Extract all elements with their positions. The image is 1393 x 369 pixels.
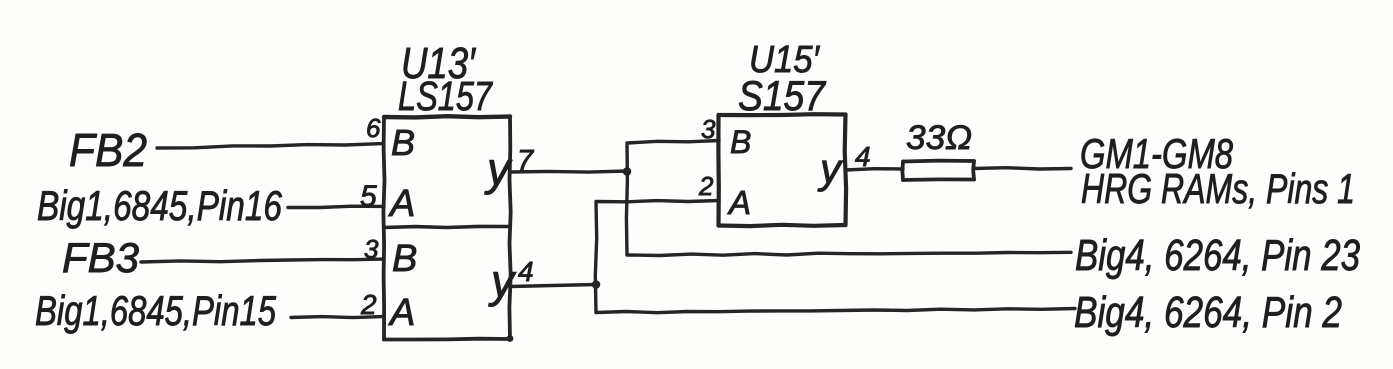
svg-text:y: y — [484, 143, 513, 195]
svg-text:FB2: FB2 — [69, 124, 147, 176]
svg-text:A: A — [727, 184, 751, 221]
svg-text:5: 5 — [360, 180, 377, 213]
svg-text:4: 4 — [855, 141, 871, 172]
svg-text:A: A — [388, 292, 415, 334]
svg-text:S157: S157 — [738, 72, 826, 119]
svg-text:LS157: LS157 — [398, 73, 494, 119]
svg-text:6: 6 — [366, 113, 381, 143]
svg-text:3: 3 — [701, 114, 716, 144]
svg-text:7: 7 — [517, 145, 535, 177]
svg-text:4: 4 — [518, 256, 534, 287]
svg-text:y: y — [488, 255, 517, 307]
svg-text:3: 3 — [364, 234, 379, 264]
svg-text:B: B — [730, 124, 751, 160]
svg-text:y: y — [817, 145, 844, 192]
svg-text:A: A — [388, 183, 415, 225]
svg-text:HRG RAMs, Pins 1: HRG RAMs, Pins 1 — [1081, 165, 1355, 212]
svg-text:Big1,6845,Pin15: Big1,6845,Pin15 — [35, 287, 276, 334]
svg-text:Big4, 6264, Pin 2: Big4, 6264, Pin 2 — [1074, 288, 1342, 337]
svg-text:Big4, 6264, Pin 23: Big4, 6264, Pin 23 — [1075, 231, 1360, 280]
svg-text:B: B — [391, 122, 415, 163]
svg-text:FB3: FB3 — [62, 234, 139, 281]
svg-text:2: 2 — [360, 289, 377, 320]
svg-text:Big1,6845,Pin16: Big1,6845,Pin16 — [37, 182, 282, 229]
svg-text:B: B — [392, 238, 417, 280]
svg-text:2: 2 — [698, 171, 714, 201]
svg-text:33Ω: 33Ω — [906, 119, 972, 157]
